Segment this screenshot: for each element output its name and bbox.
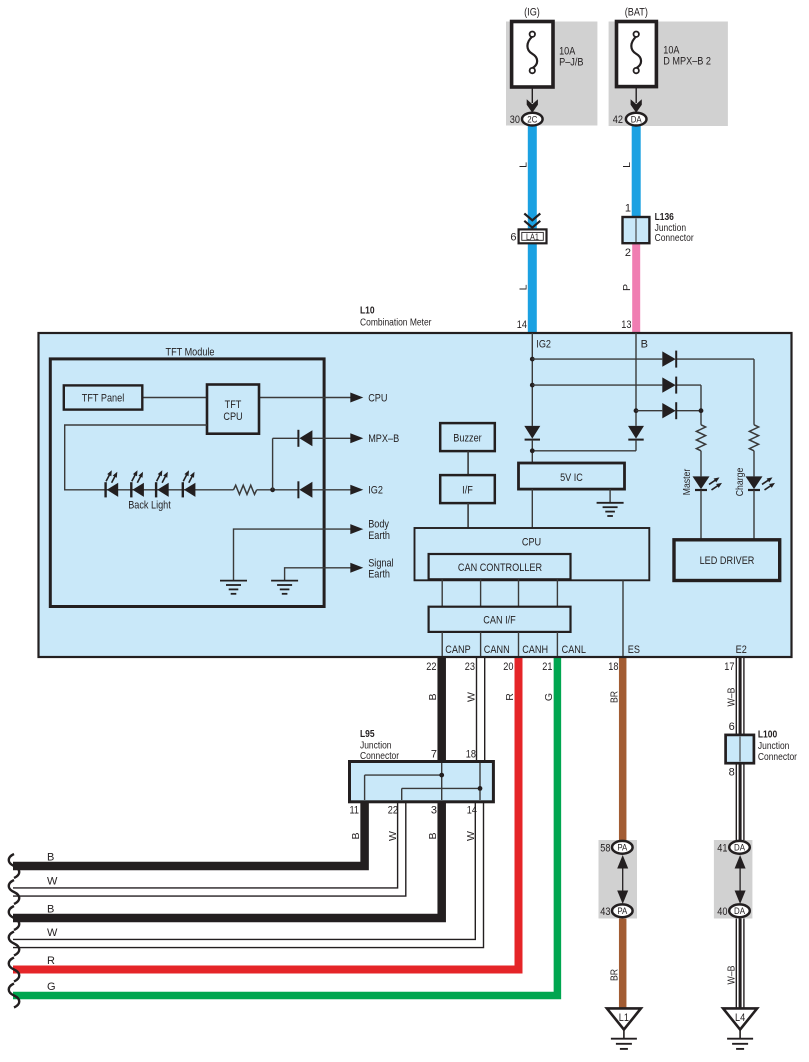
label W below L95 [387, 831, 399, 841]
svg-text:Signal: Signal [368, 557, 393, 569]
svg-text:R: R [47, 955, 55, 967]
wire W-B E2 pin 17 to L100 pin 6 [736, 657, 744, 736]
svg-text:Earth: Earth [368, 530, 390, 542]
label Signal Earth [368, 557, 393, 580]
svg-text:TFT: TFT [225, 399, 242, 411]
junction connector L95 box [350, 762, 494, 802]
svg-text:Back Light: Back Light [128, 500, 171, 512]
svg-text:CANL: CANL [562, 644, 586, 656]
label IG2 output [368, 485, 383, 497]
arrow MPX-B [350, 433, 363, 443]
label W horizontal wire [47, 876, 58, 888]
diode B down [628, 426, 644, 440]
svg-text:Earth: Earth [368, 569, 390, 581]
5V IC box [519, 463, 625, 489]
wire 5V IC to ground [609, 489, 611, 503]
CPU box [415, 528, 650, 580]
svg-text:L1: L1 [619, 1012, 629, 1024]
wire W (white) L95 pin 14 down-left to harness break [13, 800, 484, 948]
pin 30 [510, 114, 520, 126]
I/F box [440, 475, 495, 503]
ground symbol L1 [611, 1039, 637, 1049]
wire W-B from connector 40 DA to ground L4 [736, 918, 744, 1010]
label G horizontal wire [47, 981, 56, 993]
wires CAN I/F to meter pins [442, 632, 557, 656]
node B row3 [634, 408, 639, 413]
resistor master [696, 425, 705, 451]
svg-text:41: 41 [717, 842, 727, 854]
combination meter L10 box [39, 333, 792, 657]
svg-text:6: 6 [510, 231, 516, 243]
LED charge [746, 476, 776, 490]
label B horizontal wire [47, 904, 54, 916]
svg-text:R: R [504, 693, 516, 701]
svg-text:30: 30 [510, 114, 520, 126]
wire node up to MPX-B row [273, 438, 299, 490]
wire B internal vertical [635, 333, 637, 426]
CAN I/F box [429, 607, 571, 632]
L95 internal black net [365, 763, 445, 800]
connector block DA background [714, 840, 753, 919]
arrow up DA [735, 855, 746, 897]
wire master LED to LED driver [700, 490, 702, 540]
pin 18 below meter [608, 661, 618, 673]
pin 3 [431, 805, 437, 817]
connector LA1 [519, 229, 547, 243]
svg-text:TFT Module: TFT Module [166, 346, 215, 358]
label (IG) [524, 6, 540, 18]
wire W-B from L100 pin 8 to connector DA [736, 760, 744, 843]
LED backlight 3 [156, 470, 169, 497]
svg-text:DA: DA [734, 843, 746, 854]
fuse 10A D MPX-B 2 (BAT) [617, 22, 657, 87]
svg-text:42: 42 [613, 114, 623, 126]
svg-text:58: 58 [600, 842, 610, 854]
svg-text:3: 3 [431, 805, 437, 817]
svg-text:B: B [47, 904, 54, 916]
LED master [693, 476, 723, 490]
svg-text:Body: Body [368, 519, 389, 531]
svg-text:Connector: Connector [655, 233, 695, 244]
pin label CANL [562, 644, 586, 656]
pin 1 [625, 203, 631, 215]
svg-text:IG2: IG2 [536, 339, 551, 351]
label Back Light [128, 500, 171, 512]
svg-text:I/F: I/F [462, 485, 473, 497]
wire L (blue) from fuse 2C to LA1 to pin 14 [528, 126, 537, 333]
svg-text:8: 8 [729, 767, 735, 779]
ground body earth [220, 581, 247, 594]
svg-text:P: P [621, 284, 633, 291]
label W–B on wire [725, 688, 737, 707]
svg-text:BR: BR [609, 691, 621, 703]
svg-text:Buzzer: Buzzer [453, 433, 482, 445]
svg-text:CANH: CANH [522, 644, 548, 656]
wire R (red) CANH pin 20 down and left [13, 657, 519, 970]
harness break squiggle row B [9, 854, 20, 878]
svg-text:Junction: Junction [758, 741, 790, 752]
svg-text:G: G [543, 693, 555, 701]
svg-text:B: B [350, 832, 362, 839]
TFT CPU box [207, 385, 259, 434]
wire TFT CPU to CPU arrow [259, 397, 351, 399]
label P on pink wire [621, 284, 633, 291]
TFT Module box [50, 359, 324, 607]
wire W (white) CANN pin 23 to L95 pin 18 [477, 657, 485, 763]
wire G (green) CANL pin 21 down and left [13, 657, 557, 996]
wire P (pink) from L136 pin 2 to pin 13 [632, 242, 640, 333]
svg-text:14: 14 [467, 805, 477, 817]
label L95 Junction Connector [360, 729, 400, 762]
svg-text:PA: PA [617, 906, 627, 917]
svg-text:W–B: W–B [725, 966, 737, 985]
svg-text:CANP: CANP [445, 644, 470, 656]
label R on wire [504, 693, 516, 701]
arrow up PA [617, 855, 628, 897]
svg-text:5V IC: 5V IC [560, 472, 583, 484]
label Body Earth [368, 519, 390, 542]
power supply block (BAT) background [609, 22, 728, 127]
pin 8 (L100) [729, 767, 735, 779]
svg-text:L: L [621, 162, 633, 168]
connector oval 40 DA [729, 904, 750, 917]
pin 43 [600, 906, 610, 918]
LED DRIVER box [674, 540, 780, 581]
wire CPU to ES pin [622, 580, 624, 656]
svg-text:DA: DA [631, 115, 643, 126]
label (BAT) [625, 6, 648, 18]
diode to MPX-B [298, 430, 312, 447]
svg-text:Combination Meter: Combination Meter [360, 317, 432, 328]
svg-text:6: 6 [729, 721, 735, 733]
svg-text:7: 7 [431, 749, 437, 761]
label W below L95 [465, 831, 477, 841]
label BR on wire [609, 691, 621, 703]
svg-text:CPU: CPU [368, 392, 387, 404]
svg-text:13: 13 [621, 319, 631, 331]
arrow fuse IG to connector [527, 87, 538, 113]
diode row1 [662, 351, 676, 368]
pin 13 [621, 319, 631, 331]
svg-text:B: B [641, 339, 648, 351]
svg-text:(BAT): (BAT) [625, 6, 648, 18]
svg-text:CPU: CPU [522, 537, 541, 549]
pin 2 [625, 247, 631, 259]
pin 7 [431, 749, 437, 761]
svg-text:W: W [466, 692, 478, 702]
connector oval DA (fuse BAT) [626, 113, 647, 126]
svg-text:BR: BR [609, 969, 621, 981]
L95 internal white net [402, 763, 483, 800]
node row3 master column [699, 408, 704, 413]
label W-B lower [725, 966, 737, 985]
svg-text:Connector: Connector [758, 752, 798, 763]
wire charge LED to LED driver [753, 490, 755, 540]
svg-text:TFT Panel: TFT Panel [82, 392, 125, 404]
svg-text:23: 23 [465, 661, 475, 673]
pin 41 [717, 842, 727, 854]
ground 5V IC [597, 503, 624, 516]
svg-text:2: 2 [625, 247, 631, 259]
pin 40 [717, 906, 727, 918]
pin 22 (L95) [388, 805, 398, 817]
wire IG2 internal vertical [531, 333, 533, 426]
label L on BAT wire upper [621, 162, 633, 168]
svg-text:G: G [47, 981, 56, 993]
label R horizontal wire [47, 955, 55, 967]
svg-text:B: B [47, 852, 54, 864]
resistor charge [749, 425, 758, 451]
pin 23 below meter [465, 661, 475, 673]
svg-text:Charge: Charge [734, 468, 746, 497]
wire charge resistor to LED [753, 451, 755, 477]
junction connector L136 [623, 217, 650, 243]
label 10A P-J/B [559, 45, 583, 68]
svg-text:W: W [387, 831, 399, 841]
svg-text:W: W [465, 831, 477, 841]
pin 11 [350, 805, 360, 817]
label L10 Combination Meter [360, 305, 432, 328]
wire row3 B to master column [636, 410, 701, 412]
wire body earth [234, 529, 352, 581]
svg-text:L100: L100 [758, 730, 778, 741]
wire W (white) L95 pin 22 down-left to harness break [13, 800, 406, 896]
harness break squiggle row B [9, 906, 20, 930]
wire resistor to node [257, 489, 299, 491]
LED backlight 4 [183, 470, 196, 497]
label B on wire [427, 693, 439, 700]
wire BR (brown) ES pin 18 to connector PA [619, 657, 627, 843]
wires CAN controller to CAN I/F [442, 579, 557, 606]
ground triangle L4 [723, 1008, 757, 1038]
svg-text:40: 40 [717, 906, 727, 918]
diode to IG2 [298, 481, 312, 498]
LED backlight 1 [106, 470, 119, 497]
label 10A D MPX-B 2 [663, 45, 711, 68]
wire B (black) CANP pin 22 to L95 pin 7 [437, 657, 446, 763]
label CPU output [368, 392, 387, 404]
label BR lower [609, 969, 621, 981]
pin 6 [510, 231, 516, 243]
pin 17 below meter [724, 661, 734, 673]
arrow Signal Earth [350, 563, 363, 573]
svg-text:L95: L95 [360, 729, 375, 740]
label W on wire [466, 692, 478, 702]
pin 21 below meter [542, 661, 552, 673]
ground triangle L1 [607, 1008, 641, 1038]
svg-text:W: W [47, 876, 58, 888]
pin 18 (L95) [466, 749, 476, 761]
wire backlight LED row [105, 489, 234, 491]
diode row3 [662, 402, 676, 419]
pin 58 [600, 842, 610, 854]
label Charge [734, 468, 746, 497]
svg-text:14: 14 [517, 319, 527, 331]
junction connector L100 [726, 735, 754, 763]
wire row1 to charge column [532, 359, 754, 425]
pin 14 [517, 319, 527, 331]
svg-text:21: 21 [542, 661, 552, 673]
label L on IG wire upper [517, 162, 529, 168]
label B below L95 [427, 832, 439, 839]
wire B (black) L95 pin 3 down-left to harness break [13, 800, 442, 918]
ground symbol L4 [727, 1039, 753, 1049]
arrow down PA [617, 891, 628, 905]
diode row2 [662, 377, 676, 394]
harness break squiggle row W [9, 932, 20, 956]
svg-text:W–B: W–B [725, 688, 737, 707]
pin 6 (L100) [729, 721, 735, 733]
wire I/F to CPU [467, 503, 469, 528]
svg-text:22: 22 [426, 661, 436, 673]
svg-text:CAN I/F: CAN I/F [483, 615, 516, 627]
svg-text:2C: 2C [527, 115, 537, 126]
TFT Panel box [64, 385, 143, 409]
svg-text:1: 1 [625, 203, 631, 215]
wire diode to MPX-B arrow [312, 437, 351, 439]
svg-text:18: 18 [608, 661, 618, 673]
wire L (blue) from fuse DA to L136 pin 1 [632, 126, 641, 218]
svg-text:DA: DA [734, 906, 746, 917]
pin label IG2 [536, 339, 551, 351]
svg-text:B: B [427, 693, 439, 700]
svg-text:22: 22 [388, 805, 398, 817]
connector oval 58 PA [612, 841, 633, 854]
svg-text:CPU: CPU [223, 411, 242, 423]
pin label ES [628, 644, 640, 656]
label L100 Junction Connector [758, 730, 798, 763]
power supply block (IG) background [506, 22, 597, 126]
svg-text:LA1: LA1 [526, 232, 539, 242]
wire row2 to master column [532, 385, 701, 425]
label B below L95 [350, 832, 362, 839]
wire TFT Panel to TFT CPU [142, 397, 207, 399]
svg-text:P–J/B: P–J/B [559, 56, 583, 68]
pin label CANH [522, 644, 548, 656]
svg-text:L10: L10 [360, 305, 375, 316]
pin 20 below meter [503, 661, 513, 673]
label G on wire [543, 693, 555, 701]
arrow IG2 [350, 485, 363, 495]
pin 14 (L95) [467, 805, 477, 817]
wire master resistor to LED [700, 451, 702, 477]
svg-text:L4: L4 [735, 1012, 745, 1024]
CAN CONTROLLER box [429, 554, 571, 579]
svg-text:43: 43 [600, 906, 610, 918]
wire TFT CPU left to backlight row [65, 425, 207, 490]
svg-text:L: L [517, 284, 529, 290]
connector oval 41 DA [729, 841, 750, 854]
svg-text:MPX–B: MPX–B [368, 433, 399, 445]
label Master [681, 468, 693, 495]
svg-text:L: L [517, 162, 529, 168]
diode IG2 down [524, 426, 540, 440]
svg-text:E2: E2 [736, 644, 747, 656]
svg-text:B: B [427, 832, 439, 839]
wire BR (brown) from connector 43 PA to ground L1 [619, 918, 627, 1010]
harness break squiggle row G [9, 984, 20, 1008]
svg-text:CAN CONTROLLER: CAN CONTROLLER [458, 562, 542, 574]
svg-text:IG2: IG2 [368, 485, 383, 497]
pin label CANN [484, 644, 510, 656]
harness break squiggle row W [9, 880, 20, 904]
pin 22 below meter [426, 661, 436, 673]
connector oval 43 PA [612, 904, 633, 917]
arrow down DA [735, 891, 746, 905]
connector block PA background [599, 840, 638, 919]
label MPX-B [368, 433, 399, 445]
svg-text:D MPX–B 2: D MPX–B 2 [663, 55, 711, 67]
svg-text:Junction: Junction [655, 223, 687, 234]
svg-text:ES: ES [628, 644, 640, 656]
Buzzer box [440, 423, 495, 451]
wire diodes to 5V IC [532, 440, 636, 463]
label W horizontal wire [47, 927, 58, 939]
wire B (black) L95 pin 11 down-left to harness break [13, 800, 365, 866]
svg-text:17: 17 [724, 661, 734, 673]
node IG2 row1 [530, 357, 535, 362]
svg-text:11: 11 [350, 805, 360, 817]
label B horizontal wire [47, 852, 54, 864]
label TFT Module [166, 346, 215, 358]
pin label E2 [736, 644, 747, 656]
ground signal earth [271, 581, 298, 594]
pin label CANP [445, 644, 470, 656]
wire buzzer to I/F [467, 451, 469, 475]
resistor backlight [234, 485, 257, 494]
svg-text:18: 18 [466, 749, 476, 761]
harness break squiggle row R [9, 958, 20, 982]
node 5V IC input [530, 448, 535, 453]
pin 42 [613, 114, 623, 126]
label L136 Junction Connector [655, 212, 695, 244]
arrow CPU [350, 393, 363, 403]
LED backlight 2 [131, 470, 144, 497]
svg-text:PA: PA [617, 843, 627, 854]
wire diode to IG2 arrow [312, 489, 351, 491]
svg-text:20: 20 [503, 661, 513, 673]
pin label B [641, 339, 648, 351]
wire 5V IC to CPU [531, 489, 533, 528]
shield chevrons above LA1 [524, 214, 540, 228]
svg-text:Master: Master [681, 468, 693, 495]
svg-text:(IG): (IG) [524, 6, 540, 18]
connector oval 2C [522, 113, 543, 126]
svg-text:CANN: CANN [484, 644, 510, 656]
arrow Body Earth [350, 524, 363, 534]
svg-text:L136: L136 [655, 212, 675, 223]
wire signal earth [285, 568, 351, 581]
svg-text:W: W [47, 927, 58, 939]
label L on IG wire lower [517, 284, 529, 290]
fuse 10A P-J/B (IG) [512, 22, 553, 88]
arrow fuse BAT to connector [631, 87, 642, 113]
node IG2 row2 [530, 383, 535, 388]
svg-text:LED DRIVER: LED DRIVER [700, 555, 755, 567]
node backlight junction [270, 487, 275, 492]
